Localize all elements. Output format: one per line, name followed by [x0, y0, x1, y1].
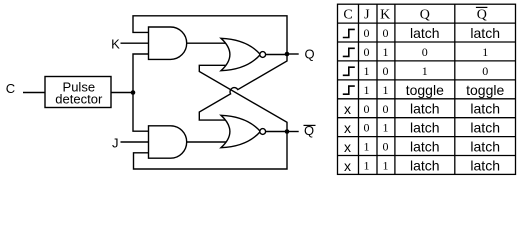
svg-text:toggle: toggle: [406, 82, 444, 98]
truth table C column x entries: [344, 101, 351, 174]
pulse detector U1: [45, 77, 111, 108]
NOR gate U4 (Q): [221, 38, 266, 70]
svg-text:K: K: [111, 37, 120, 52]
svg-text:detector: detector: [55, 92, 103, 107]
wire Q output stub: [287, 53, 299, 55]
svg-text:1: 1: [383, 83, 389, 97]
svg-text:Q: Q: [305, 47, 315, 62]
svg-text:Q: Q: [420, 8, 430, 23]
NOR gate U5 (Qbar): [221, 115, 266, 147]
svg-text:Q: Q: [477, 8, 487, 23]
svg-text:latch: latch: [470, 139, 500, 155]
svg-text:x: x: [344, 139, 351, 155]
svg-text:latch: latch: [410, 139, 440, 155]
svg-text:x: x: [344, 158, 351, 174]
svg-text:C: C: [343, 8, 352, 23]
wire clock line to top AND gate: [133, 54, 149, 93]
svg-text:latch: latch: [410, 120, 440, 136]
svg-text:K: K: [380, 8, 390, 23]
wire Qbar output stub: [287, 131, 299, 133]
svg-text:latch: latch: [410, 157, 440, 173]
wire cross-coupling Qbar to NOR U4 lower input: [199, 65, 287, 131]
svg-text:C: C: [6, 81, 15, 96]
wire NOR U5 output to node Qbar: [266, 131, 287, 133]
wire NOR U4 output to node Q: [266, 54, 287, 56]
svg-text:x: x: [344, 101, 351, 117]
svg-text:toggle: toggle: [466, 82, 504, 98]
wire AND U3 output to NOR U5: [187, 141, 232, 143]
svg-text:0: 0: [383, 102, 389, 116]
svg-text:0: 0: [422, 45, 428, 59]
svg-text:latch: latch: [410, 101, 440, 117]
wire J input: [121, 141, 149, 143]
svg-text:1: 1: [482, 45, 488, 59]
truth table Q column entries: [406, 25, 444, 173]
svg-text:0: 0: [364, 102, 370, 116]
wire Qbar feedback to bottom AND gate: [134, 132, 288, 170]
svg-text:latch: latch: [470, 157, 500, 173]
AND gate U2 (K section): [149, 27, 187, 59]
wire pulse detector output: [111, 92, 133, 94]
output label Qbar: [304, 123, 316, 138]
wire C to pulse detector: [23, 92, 45, 94]
svg-text:latch: latch: [410, 25, 440, 41]
svg-text:J: J: [112, 135, 119, 150]
truth table clock edge symbols: [343, 29, 355, 94]
svg-text:0: 0: [364, 26, 370, 40]
wire Q feedback to top AND gate: [133, 16, 287, 54]
truth table header row: [343, 8, 487, 23]
wire AND U2 output to NOR U4: [187, 42, 232, 44]
wire clock line to bottom AND gate: [133, 93, 149, 132]
svg-text:1: 1: [383, 45, 389, 59]
svg-text:0: 0: [383, 140, 389, 154]
node Qbar: [285, 129, 290, 134]
truth table J column entries: [364, 26, 370, 172]
node Q: [285, 52, 290, 57]
AND gate U3 (J section): [149, 126, 187, 158]
svg-text:1: 1: [383, 159, 389, 173]
node clock junction: [131, 90, 136, 95]
wire K input: [121, 42, 149, 44]
svg-text:0: 0: [482, 64, 488, 78]
svg-text:0: 0: [364, 45, 370, 59]
svg-text:1: 1: [364, 83, 370, 97]
svg-text:1: 1: [364, 159, 370, 173]
svg-text:0: 0: [383, 26, 389, 40]
svg-text:1: 1: [364, 64, 370, 78]
wire cross-coupling Q to NOR U5 upper input (with hop): [199, 54, 287, 120]
svg-text:1: 1: [364, 140, 370, 154]
svg-text:latch: latch: [470, 120, 500, 136]
truth table grid: [338, 4, 516, 174]
svg-text:0: 0: [383, 64, 389, 78]
svg-text:1: 1: [422, 64, 428, 78]
svg-text:0: 0: [364, 121, 370, 135]
truth table Qbar header overbar: [476, 6, 488, 8]
svg-text:J: J: [364, 8, 370, 23]
svg-text:1: 1: [383, 121, 389, 135]
svg-text:latch: latch: [470, 25, 500, 41]
truth table Qbar column entries: [466, 25, 504, 173]
svg-text:latch: latch: [470, 101, 500, 117]
svg-text:x: x: [344, 120, 351, 136]
truth table K column entries: [383, 26, 389, 172]
